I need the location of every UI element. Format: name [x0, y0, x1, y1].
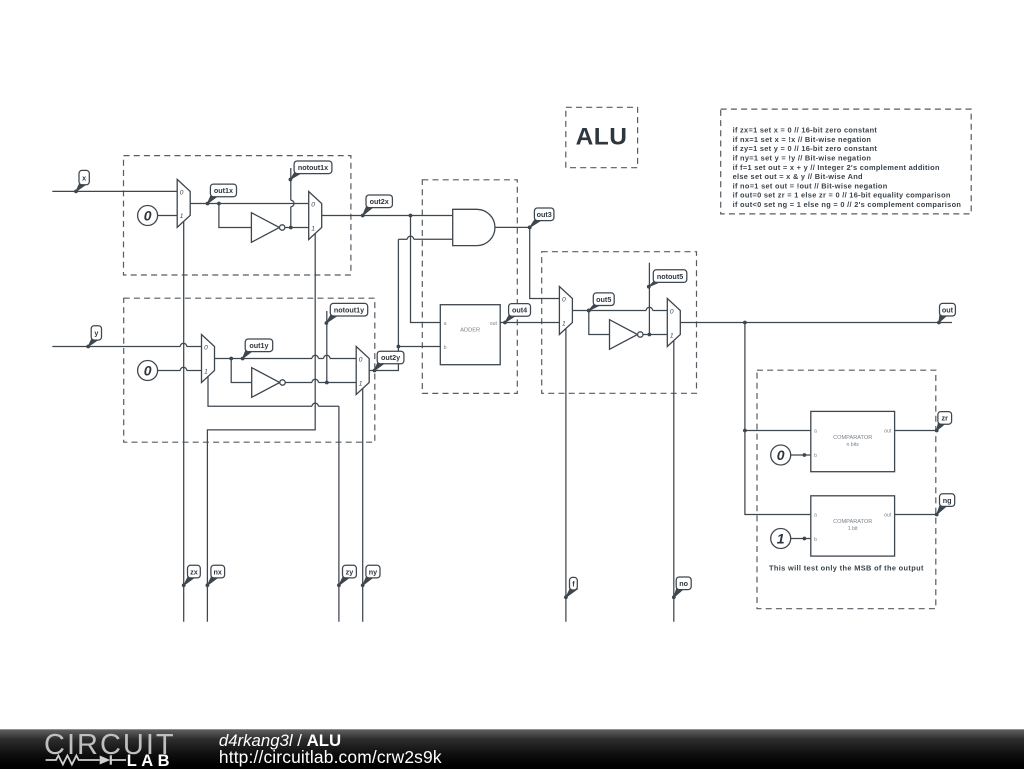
label notout5 [647, 270, 687, 289]
mux MUX4 (ny) [356, 347, 369, 395]
wire out1y to NOT2 [231, 359, 252, 383]
flag y [86, 326, 101, 349]
svg-text:1: 1 [359, 380, 363, 387]
svg-text:ng: ng [943, 496, 952, 505]
wire net zy [208, 377, 339, 622]
svg-text:notout1x: notout1x [298, 163, 328, 172]
svg-text:0: 0 [359, 357, 363, 364]
svg-text:COMPARATOR: COMPARATOR [833, 435, 872, 441]
comparator U4 (1 bit) [811, 496, 895, 556]
svg-text:out5: out5 [596, 295, 611, 304]
wire out4 [500, 322, 559, 324]
svg-text:This will test only the MSB of: This will test only the MSB of the outpu… [769, 563, 924, 572]
label f [564, 577, 577, 599]
dashed box: and/adder stage [422, 180, 517, 394]
wire ng [895, 514, 937, 516]
flag x [74, 170, 89, 193]
svg-text:if zx=1 set x = 0 // 16-bit ze: if zx=1 set x = 0 // 16-bit zero constan… [733, 126, 878, 135]
label out2y [373, 351, 404, 372]
svg-text:out4: out4 [512, 306, 527, 315]
wire net zx [183, 222, 185, 622]
svg-text:1: 1 [180, 213, 184, 220]
inverter NOT1 [251, 213, 285, 243]
wire net y [52, 343, 201, 346]
svg-text:out1y: out1y [249, 341, 268, 350]
svg-text:notout5: notout5 [657, 272, 683, 281]
label ny [361, 565, 380, 587]
svg-text:if out=0 set zr = 1 else zr =: if out=0 set zr = 1 else zr = 0 // 16-bi… [733, 191, 951, 200]
wire zr [895, 430, 937, 432]
inverter NOT3 [610, 320, 644, 350]
wire out5 [572, 307, 667, 312]
mux MUX5 (f) [559, 287, 572, 335]
svg-text:n bits: n bits [846, 442, 859, 448]
note MSB [769, 563, 924, 572]
label out1x [206, 184, 237, 205]
label zy [337, 565, 356, 587]
svg-text:ny: ny [369, 567, 377, 576]
svg-text:b: b [814, 537, 817, 543]
label out4 [503, 304, 530, 325]
wire out1x to NOT1 [219, 204, 252, 228]
dashed box: description note [721, 109, 972, 214]
svg-text:b: b [444, 345, 447, 351]
label notout1y [325, 303, 368, 325]
wire net out [680, 321, 952, 325]
svg-text:out: out [942, 305, 954, 314]
wire net ny [362, 389, 364, 622]
adder U2 [440, 305, 500, 365]
wire net no [673, 341, 675, 622]
wire NOT3 out [643, 333, 667, 337]
constant 1 (ng ref) [771, 529, 791, 549]
wire notout5 stub [648, 263, 650, 335]
logo resistor-diode symbol [46, 756, 126, 765]
label notout1x [289, 161, 332, 181]
svg-text:0: 0 [562, 297, 566, 304]
dashed box: output negate stage [542, 252, 697, 394]
label out3 [528, 208, 554, 229]
wire notout1x stub [291, 168, 294, 228]
comparator U3 (n bits) [811, 411, 895, 471]
wire out2x [321, 214, 453, 218]
svg-text:0: 0 [777, 447, 785, 463]
label out1y [241, 339, 273, 360]
dashed box: y preset stage [124, 298, 375, 442]
wire net nx [207, 234, 315, 622]
svg-text:ADDER: ADDER [460, 327, 480, 333]
svg-text:out: out [884, 513, 892, 519]
svg-text:1: 1 [204, 368, 208, 375]
wire out2y to ADDER b [398, 346, 440, 348]
wire out2y to AND b [398, 236, 452, 239]
label no [672, 577, 691, 599]
svg-text:0: 0 [204, 345, 208, 352]
svg-text:if zy=1 set y = 0 // 16-bit ze: if zy=1 set y = 0 // 16-bit zero constan… [733, 144, 878, 153]
dashed box: comparators stage [757, 370, 936, 609]
constant 0 (x zero) [138, 206, 158, 226]
svg-text:else set out = x & y // Bit-wi: else set out = x & y // Bit-wise And [733, 172, 863, 181]
svg-text:a: a [444, 321, 447, 327]
svg-text:x: x [82, 173, 86, 182]
svg-text:http://circuitlab.com/crw2s9k: http://circuitlab.com/crw2s9k [219, 747, 442, 767]
svg-text:out3: out3 [537, 210, 552, 219]
wire out2y [369, 239, 400, 370]
wire out1x [190, 202, 309, 206]
svg-text:zy: zy [346, 567, 354, 576]
wire NOT1 out [285, 226, 309, 230]
svg-text:notout1y: notout1y [334, 305, 364, 314]
svg-text:out2y: out2y [381, 353, 400, 362]
svg-text:zx: zx [190, 567, 198, 576]
constant 0 (zr ref) [771, 445, 791, 465]
wire out2x to ADDER a [411, 216, 441, 323]
svg-text:1: 1 [670, 332, 674, 339]
label out5 [587, 293, 614, 313]
svg-text:if no=1 set out = !out // Bit-: if no=1 set out = !out // Bit-wise negat… [733, 181, 888, 190]
constant 0 (y zero) [138, 361, 158, 381]
svg-text:b: b [814, 453, 817, 459]
svg-text:if f=1 set out = x + y // Inte: if f=1 set out = x + y // Integer 2's co… [733, 163, 940, 172]
svg-text:no: no [679, 579, 688, 588]
wire out1y [215, 355, 357, 360]
svg-text:out1x: out1x [214, 186, 233, 195]
svg-text:LAB: LAB [127, 752, 174, 769]
label zx [182, 565, 201, 587]
svg-text:1 bit: 1 bit [848, 526, 858, 532]
svg-text:out: out [884, 429, 892, 435]
wire net x [52, 190, 177, 192]
svg-text:ALU: ALU [576, 124, 628, 151]
svg-text:0: 0 [180, 190, 184, 197]
svg-text:out: out [490, 321, 498, 327]
svg-text:if out<0 set ng = 1 else ng =: if out<0 set ng = 1 else ng = 0 // 2's c… [733, 200, 962, 209]
svg-text:0: 0 [311, 202, 315, 209]
mux MUX6 (no) [667, 299, 680, 347]
svg-text:a: a [814, 429, 817, 435]
svg-text:a: a [814, 513, 817, 519]
label out2x [361, 195, 393, 217]
svg-text:out2x: out2x [370, 197, 389, 206]
wire net f [565, 329, 567, 622]
wire out5 to NOT3 [589, 311, 610, 335]
and gate U1 [453, 209, 495, 245]
label out [937, 303, 955, 324]
label nx [206, 565, 225, 587]
wire const0-to-MUX3 [158, 367, 202, 370]
svg-text:1: 1 [562, 320, 566, 327]
footer bar [0, 729, 1024, 769]
wire const1 to comp2 b [791, 537, 811, 541]
svg-text:zr: zr [942, 414, 949, 423]
wire const0-to-MUX1 [158, 215, 178, 217]
svg-text:y: y [94, 329, 98, 338]
note: ALU behavior description [733, 126, 962, 209]
wire const0 to comp1 b [791, 453, 811, 457]
dashed box: x preset stage [124, 156, 351, 275]
svg-text:if ny=1 set y = !y // Bit-wise: if ny=1 set y = !y // Bit-wise negation [733, 154, 872, 163]
mux MUX1 (zx) [177, 179, 190, 227]
wire out to comparators [743, 323, 811, 515]
wire comp1 a [745, 430, 811, 432]
label zr [935, 412, 952, 433]
svg-text:1: 1 [311, 225, 315, 232]
svg-text:0: 0 [670, 309, 674, 316]
dashed box: ALU title [566, 107, 638, 167]
inverter NOT2 [252, 368, 285, 398]
title ALU [576, 124, 628, 151]
wire NOT2 out [286, 379, 357, 384]
svg-text:if nx=1 set x = !x // Bit-wise: if nx=1 set x = !x // Bit-wise negation [733, 135, 872, 144]
label ng [935, 494, 955, 517]
svg-text:0: 0 [144, 208, 152, 224]
mux MUX3 (zy) [202, 335, 215, 383]
svg-text:COMPARATOR: COMPARATOR [833, 519, 872, 525]
svg-text:1: 1 [777, 531, 785, 547]
svg-text:nx: nx [214, 567, 222, 576]
wire out3 [495, 226, 560, 299]
svg-text:0: 0 [144, 363, 152, 379]
mux MUX2 (nx) [309, 192, 322, 240]
wire notout1y stub [326, 311, 328, 383]
